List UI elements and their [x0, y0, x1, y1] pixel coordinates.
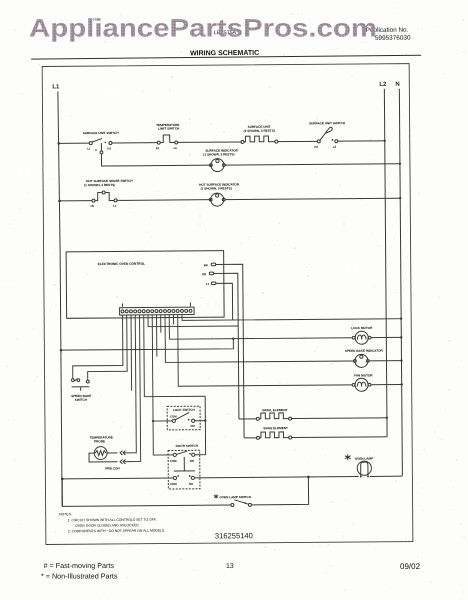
motor M1 LOCK MOTOR: [351, 326, 373, 344]
svg-text:1A: 1A: [173, 146, 177, 150]
pin L1 terminal of EOC: [206, 282, 216, 286]
wire strip pin2 to speed bake switch terminal3: [87, 315, 127, 380]
pin BK terminal of EOC: [204, 263, 216, 267]
svg-text:WIRING SCHEMATIC: WIRING SCHEMATIC: [190, 50, 259, 58]
wire rowB drop from P terminal: [101, 153, 210, 166]
svg-text:2A: 2A: [156, 146, 160, 150]
junction lockNO-pin6: [204, 419, 206, 421]
wire speed bake indicator to N: [369, 360, 401, 362]
wire lamp to N corner: [370, 475, 403, 477]
lamp DS2 HOT SURFACE INDICATOR: [199, 182, 240, 206]
junction L1row-lockrow: [232, 337, 234, 339]
note text block: [59, 512, 165, 534]
svg-text:1A: 1A: [113, 204, 117, 208]
lamp DS3 SPEED BAKE INDICATOR: [345, 349, 384, 368]
switch S6 DOOR SWITCH: [168, 444, 200, 489]
svg-text:FAN MOTOR: FAN MOTOR: [354, 373, 373, 377]
svg-text:(1 SHOWN, 4 RESTS): (1 SHOWN, 4 RESTS): [84, 183, 115, 187]
wire L1 bus vertical: [58, 91, 62, 506]
junction rowA-L1: [57, 142, 60, 145]
wire bake element to L2 bottom: [292, 436, 387, 439]
svg-text:(2 SHOWN, 4 RESTS): (2 SHOWN, 4 RESTS): [244, 129, 275, 133]
svg-text:L1: L1: [206, 282, 210, 286]
wire rowC indicator to N: [225, 198, 400, 199]
wire lamp switch branch: [251, 477, 308, 505]
svg-text:COM: COM: [170, 482, 177, 486]
svg-text:5995376030: 5995376030: [375, 35, 411, 42]
svg-text:SURFACE UNIT SWITCH: SURFACE UNIT SWITCH: [83, 131, 120, 135]
junction rowA-L2: [384, 140, 386, 142]
wire strip pin6 to lock NO vertical: [144, 314, 205, 396]
wire rowA element to right switch: [278, 140, 317, 142]
connector probe plug chevrons: [120, 451, 126, 464]
wire strip pin5 to probe plug bottom: [123, 315, 141, 462]
watermark AppliancePartsPros.com: [29, 15, 377, 43]
svg-text:PROBE: PROBE: [94, 439, 105, 443]
svg-text:N: N: [395, 81, 399, 88]
svg-text:SURFACE UNIT SWITCH: SURFACE UNIT SWITCH: [309, 121, 346, 125]
svg-text:P: P: [95, 148, 97, 152]
wire strip pin1 to speed bake switch terminal1: [72, 315, 123, 379]
wire rowA switch to temp limit switch: [112, 142, 157, 144]
wire rowC L1 to sense switch: [60, 200, 92, 202]
junction lamp-switch-tap: [307, 476, 310, 479]
svg-text:BAKE ELEMENT: BAKE ELEMENT: [263, 426, 288, 430]
svg-text:13: 13: [226, 563, 234, 570]
wire broil element to L2: [292, 417, 387, 420]
junction sbindicator-N: [400, 359, 402, 361]
svg-text:BROIL ELEMENT: BROIL ELEMENT: [262, 408, 287, 412]
svg-text:2. COMPONENTS WITH * DO NOT: 2. COMPONENTS WITH * DO NOT APPEAR ON AL…: [68, 529, 165, 534]
wire EOC OR output to broil feed vertical: [214, 273, 239, 419]
svg-text:L2: L2: [333, 145, 337, 149]
wire strip pin12 to lock motor: [169, 313, 352, 339]
wire strip pin15 to neutral N: [182, 313, 401, 321]
wire fan motor to N: [371, 383, 402, 385]
lamp DS1 SURFACE INDICATOR: [203, 148, 238, 171]
wire strip pin14 to fan motor: [178, 313, 352, 386]
wire strip pin9 stub: [156, 315, 158, 357]
switch S8 OVEN LAMP SWITCH: [214, 494, 252, 507]
svg-text:SWITCH: SWITCH: [75, 398, 88, 402]
svg-text:LIMIT SWITCH: LIMIT SWITCH: [158, 126, 180, 130]
svg-text:OVEN LAMP: OVEN LAMP: [355, 457, 373, 461]
junction fanmotor-N: [400, 383, 402, 385]
switch S4 HOT SURFACE SENSE SWITCH: [84, 179, 134, 208]
wire strip pin3 stub: [130, 315, 133, 391]
schematic frame border: [42, 64, 413, 545]
wire rowB indicator to N: [225, 164, 400, 165]
wire lamp line door switch to lamp: [194, 477, 358, 478]
resistor BROIL ELEMENT: [239, 408, 292, 420]
svg-text:DOOR SWITCH: DOOR SWITCH: [176, 444, 199, 448]
junction broil-L2: [386, 417, 388, 419]
connector P1 terminal strip of EOC: [120, 302, 195, 315]
svg-text:SPEED BAKE INDICATOR: SPEED BAKE INDICATOR: [345, 349, 384, 353]
wire rowA L1 to surface unit switch: [59, 142, 89, 144]
pin OR terminal of EOC: [202, 272, 214, 276]
switch S1 SURFACE UNIT SWITCH (left): [83, 131, 120, 154]
lamp E1 OVEN LAMP: [345, 454, 373, 477]
wire strip pin13 stub: [173, 315, 175, 325]
junction rowC-L1: [58, 200, 61, 203]
switch S7 SPEED BAKE SWITCH: [71, 379, 91, 402]
wire lock motor to N: [371, 336, 401, 338]
wire rowA temp limit to surface unit element: [178, 141, 241, 143]
wire rowC sense switch to indicator: [117, 199, 211, 202]
wire lock switch COM feed: [153, 420, 172, 422]
wire lamp line L1 to door switch: [62, 477, 173, 480]
wire title-underline rule: [31, 55, 421, 59]
wire strip pin7 to broil feed: [148, 314, 238, 327]
wire lock switch NO to door switch NO: [194, 396, 205, 454]
svg-text:NOTES:: NOTES:: [59, 512, 72, 516]
svg-text:OVEN LAMP SWITCH: OVEN LAMP SWITCH: [220, 495, 252, 499]
wire L2 bus vertical: [384, 89, 387, 437]
node publication-number: [366, 27, 411, 42]
wire EOC BK output to bake feed vertical: [216, 264, 244, 438]
svg-text:LOCK MOTOR: LOCK MOTOR: [351, 326, 373, 330]
svg-text:# = Fast-moving Parts: # = Fast-moving Parts: [44, 561, 115, 570]
svg-text:AppliancePartsPros.com: AppliancePartsPros.com: [29, 15, 377, 43]
op-amp U1 ELECTRONIC OVEN CONTROL box: [66, 251, 224, 319]
junction L1-348: [60, 349, 63, 352]
svg-text:H2: H2: [314, 145, 318, 149]
svg-text:(1 SHOWN, 3 RESTS): (1 SHOWN, 3 RESTS): [203, 152, 234, 156]
wire lamp switch to L1 bottom: [62, 478, 231, 507]
resistor RT1 TEMPERATURE PROBE: [89, 435, 121, 470]
svg-text:(1 SHOWN, 3 RESTS): (1 SHOWN, 3 RESTS): [201, 186, 232, 190]
wire strip pin11 to speed bake indicator: [165, 313, 353, 362]
junction neutral-row-N: [400, 317, 402, 319]
wire N bus vertical: [399, 89, 402, 476]
wire rowA to L2: [338, 140, 385, 142]
svg-text:PRB CON: PRB CON: [105, 466, 120, 470]
svg-text:L1: L1: [52, 83, 60, 90]
svg-text:COM: COM: [170, 414, 177, 418]
svg-text:H3: H3: [107, 146, 111, 150]
switch S5 LOCK SWITCH: [167, 406, 200, 430]
svg-text:LOCK SWITCH: LOCK SWITCH: [173, 408, 196, 412]
svg-text:1B: 1B: [90, 204, 94, 208]
switch S2 TEMPERATURE LIMIT SWITCH: [156, 123, 181, 150]
wire strip pin8 to lock switch and door switch: [152, 315, 173, 455]
svg-text:1. CIRCUIT SHOWN WITH ALL CO: 1. CIRCUIT SHOWN WITH ALL CONTROLS SET T…: [68, 518, 157, 523]
junction lockmotor-N: [400, 336, 402, 338]
wire EOC L1 output to neutral row: [216, 283, 233, 320]
junction rowB-N: [399, 162, 401, 164]
junction lock switch feed: [152, 420, 154, 422]
svg-text:L1: L1: [87, 147, 91, 151]
wire strip pin10 stub: [160, 315, 162, 333]
note footer legend: [41, 561, 421, 581]
svg-text:* = Non-Illustrated Parts: * = Non-Illustrated Parts: [41, 572, 118, 581]
resistor SURFACE UNIT element: [241, 125, 278, 144]
junction rowC-N: [399, 197, 401, 199]
svg-text:OVEN DOOR CLOSED AND UNLOCKED.: OVEN DOOR CLOSED AND UNLOCKED.: [75, 523, 139, 528]
junction lamp-line-L1: [61, 478, 64, 481]
wire L1 row to lock motor row: [61, 339, 233, 350]
svg-text:09/02: 09/02: [400, 562, 421, 571]
svg-text:ELECTRONIC OVEN CONTROL: ELECTRONIC OVEN CONTROL: [98, 262, 145, 266]
switch S3 SURFACE UNIT SWITCH (right): [309, 121, 346, 149]
wire strip pin4 to probe plug top: [123, 315, 136, 453]
svg-text:COM: COM: [170, 459, 177, 463]
resistor BAKE ELEMENT: [244, 426, 292, 439]
svg-text:316255140: 316255140: [215, 531, 253, 540]
motor M2 FAN MOTOR: [352, 373, 373, 391]
svg-text:L2: L2: [379, 81, 387, 88]
